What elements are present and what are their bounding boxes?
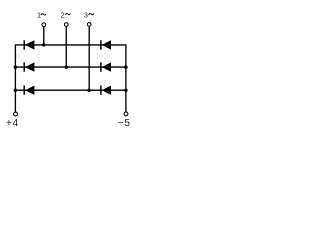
terminal 2~ circle bbox=[64, 23, 68, 27]
terminal 1~ circle bbox=[42, 23, 46, 27]
wire: bottom horizontal rail row 3 bbox=[15, 89, 127, 91]
diode D1 (row 1 left, cathode to + bus) bbox=[24, 40, 34, 49]
diode D4 (row 1 right) bbox=[101, 40, 111, 49]
wire: terminal 3 drop to row 3 bbox=[88, 27, 90, 90]
junction: right bus row 3 bbox=[124, 88, 128, 92]
svg-text:+4: +4 bbox=[6, 118, 19, 129]
terminal 3~ circle bbox=[87, 23, 91, 27]
wire: terminal 1 drop to row 1 bbox=[43, 27, 45, 45]
svg-text:2: 2 bbox=[61, 10, 65, 19]
svg-text:3: 3 bbox=[84, 11, 88, 20]
wire: left bus down to +4 terminal bbox=[14, 45, 16, 112]
diode D2 (row 2 left) bbox=[24, 62, 34, 71]
junction: phase 3 on row 3 bbox=[87, 88, 91, 92]
wire: middle horizontal rail row 2 bbox=[15, 66, 127, 68]
terminal +4 circle bbox=[14, 112, 18, 116]
junction: phase 1 on row 1 bbox=[42, 43, 46, 47]
label 2~ bbox=[61, 10, 71, 19]
diode D6 (row 3 right) bbox=[101, 86, 111, 95]
junction: right bus row 2 bbox=[124, 65, 128, 69]
terminal -5 circle bbox=[124, 112, 128, 116]
diode D3 (row 3 left) bbox=[24, 86, 34, 95]
label 1~ bbox=[37, 11, 46, 20]
wire: terminal 2 drop to row 2 bbox=[65, 27, 67, 67]
junction: left bus row 3 bbox=[14, 88, 18, 92]
wire: top horizontal rail row 1 bbox=[15, 44, 127, 46]
diode D5 (row 2 right) bbox=[101, 62, 111, 71]
svg-text:−5: −5 bbox=[118, 118, 130, 129]
wire: right bus down to -5 terminal bbox=[125, 45, 127, 112]
junction: phase 2 on row 2 bbox=[65, 65, 69, 69]
junction: left bus row 2 bbox=[14, 65, 18, 69]
svg-text:1: 1 bbox=[37, 11, 41, 20]
label 3~ bbox=[84, 11, 94, 20]
